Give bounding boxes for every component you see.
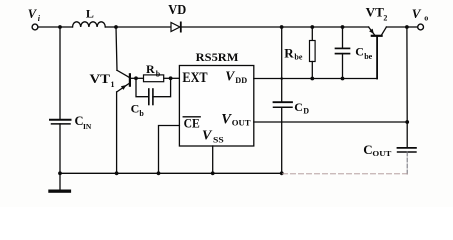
- capacitor CD: [274, 102, 293, 107]
- label VT1: [90, 71, 115, 89]
- wire node C to Rb: [136, 77, 144, 79]
- svg-text:C: C: [294, 100, 303, 114]
- wire node A down to Cin: [59, 27, 61, 119]
- label Cb: [131, 102, 145, 118]
- svg-text:OUT: OUT: [372, 149, 391, 158]
- pin label VSS: [202, 129, 224, 145]
- svg-text:V: V: [221, 111, 232, 127]
- resistor Rb: [144, 75, 164, 82]
- junction rail / CD branch: [280, 25, 284, 29]
- wire Vi to node A: [38, 26, 60, 28]
- svg-text:VD: VD: [168, 2, 186, 17]
- wire Cin to ground rail: [59, 124, 61, 173]
- svg-text:IN: IN: [83, 122, 92, 131]
- junction VOUT / output column: [405, 120, 409, 124]
- svg-text:2: 2: [383, 13, 387, 22]
- wire VOUT pin to output column: [254, 121, 407, 123]
- svg-text:R: R: [146, 62, 155, 76]
- junction rail / Cbe top: [341, 25, 345, 29]
- capacitor Cin: [50, 120, 71, 124]
- CE overline: [183, 116, 200, 118]
- junction VDD net / CD column crossing: [280, 77, 283, 80]
- wire VT1 emitter to ground rail: [116, 92, 118, 173]
- label L: [86, 7, 94, 21]
- label VD: [168, 2, 186, 17]
- terminal Vi: [32, 24, 38, 30]
- svg-text:VT: VT: [366, 4, 385, 19]
- pin label CE (active low): [184, 116, 200, 130]
- svg-text:SS: SS: [213, 135, 224, 145]
- capacitor Cb: [149, 89, 153, 105]
- pin label VOUT: [221, 111, 251, 127]
- ground rail faint right segment: [283, 173, 408, 175]
- svg-text:RS5RM: RS5RM: [196, 50, 239, 64]
- junction VT1 emitter / ground rail: [115, 171, 119, 175]
- resistor Rbe: [310, 27, 316, 79]
- junction node B (L / VD / VT1 collector): [114, 25, 118, 29]
- wire VSS pin to ground rail: [212, 146, 214, 173]
- wire Cb left branch: [136, 78, 149, 96]
- junction node D (Rb / Cb / EXT): [169, 76, 173, 80]
- svg-text:1: 1: [111, 80, 115, 89]
- wire Cout to ground rail (faint): [406, 152, 408, 174]
- svg-text:V: V: [412, 6, 422, 21]
- wire node to terminal Vo: [407, 26, 418, 28]
- IC U1 RS5RM: [179, 66, 253, 147]
- junction CD / ground rail: [280, 171, 284, 175]
- label Vi: [28, 7, 41, 23]
- junction VDD net / Cbe bottom: [341, 77, 345, 81]
- wire CD to ground rail: [281, 107, 283, 173]
- pin label EXT: [182, 70, 207, 86]
- junction CE / ground rail: [157, 171, 161, 175]
- transistor VT1 (PNP switch): [117, 70, 130, 92]
- svg-text:DD: DD: [235, 75, 247, 85]
- inductor L: [73, 22, 106, 27]
- label Cout: [363, 142, 391, 158]
- svg-text:o: o: [424, 13, 428, 22]
- transistor VT2 (PNP pass): [369, 27, 387, 36]
- diode VD: [171, 22, 181, 31]
- label Rbe: [284, 45, 303, 61]
- svg-text:C: C: [355, 45, 364, 59]
- ground: [48, 173, 71, 193]
- wire Rb to node D: [164, 77, 171, 79]
- svg-text:CE: CE: [184, 116, 200, 130]
- wire VT2 collector to node Vo: [386, 26, 407, 28]
- junction VDD net / Rbe bottom: [310, 77, 314, 81]
- svg-text:C: C: [131, 102, 140, 116]
- svg-text:V: V: [225, 68, 235, 83]
- label RS5RM: [196, 50, 239, 64]
- wire VDD pin to VT2 base (VDD net): [254, 78, 377, 80]
- wire output column (Vo node to VOUT junction): [406, 27, 408, 122]
- wire Cb right branch: [153, 78, 171, 96]
- wire node B down to VT1 collector: [116, 27, 117, 70]
- svg-text:b: b: [139, 109, 144, 118]
- svg-text:be: be: [364, 52, 372, 61]
- wire VT2 base to VDD net: [376, 37, 378, 79]
- capacitor Cbe: [336, 27, 350, 79]
- ground rail: [59, 172, 282, 174]
- wire node B to VD anode: [116, 26, 171, 28]
- svg-text:R: R: [284, 45, 294, 60]
- junction node A (Vi / Cin / L): [58, 25, 62, 29]
- svg-text:b: b: [156, 69, 161, 78]
- wire VT1 base to node C: [131, 77, 136, 79]
- svg-text:OUT: OUT: [232, 117, 251, 127]
- label Rb: [146, 62, 161, 78]
- svg-text:VT: VT: [90, 71, 111, 86]
- label Cin: [75, 114, 92, 131]
- junction rail / Rbe top: [310, 25, 314, 29]
- wire output column down to Cout: [406, 122, 408, 148]
- pin label VDD: [225, 68, 247, 85]
- wire boost rail down to CD: [281, 27, 283, 102]
- label Cbe: [355, 45, 372, 61]
- svg-text:EXT: EXT: [182, 70, 207, 86]
- wire node A to inductor: [60, 26, 73, 28]
- wire L to node B: [105, 26, 116, 28]
- label VT2: [366, 4, 388, 22]
- wire node D to EXT pin: [171, 77, 180, 79]
- label CD: [294, 100, 309, 116]
- wire CE pin to ground rail: [159, 126, 180, 174]
- svg-text:C: C: [363, 142, 372, 157]
- wire VD cathode to VT2 emitter (boost rail): [181, 26, 369, 28]
- junction Cin / ground rail: [58, 171, 62, 175]
- svg-text:be: be: [294, 53, 302, 62]
- capacitor Cout: [398, 148, 417, 152]
- junction node C (base / Rb / Cb): [134, 76, 138, 80]
- svg-text:L: L: [86, 7, 94, 21]
- terminal Vo: [418, 24, 424, 30]
- junction VSS / ground rail: [211, 171, 215, 175]
- svg-text:D: D: [303, 106, 309, 115]
- junction node Vo rail: [405, 25, 409, 29]
- label Vo: [412, 6, 428, 23]
